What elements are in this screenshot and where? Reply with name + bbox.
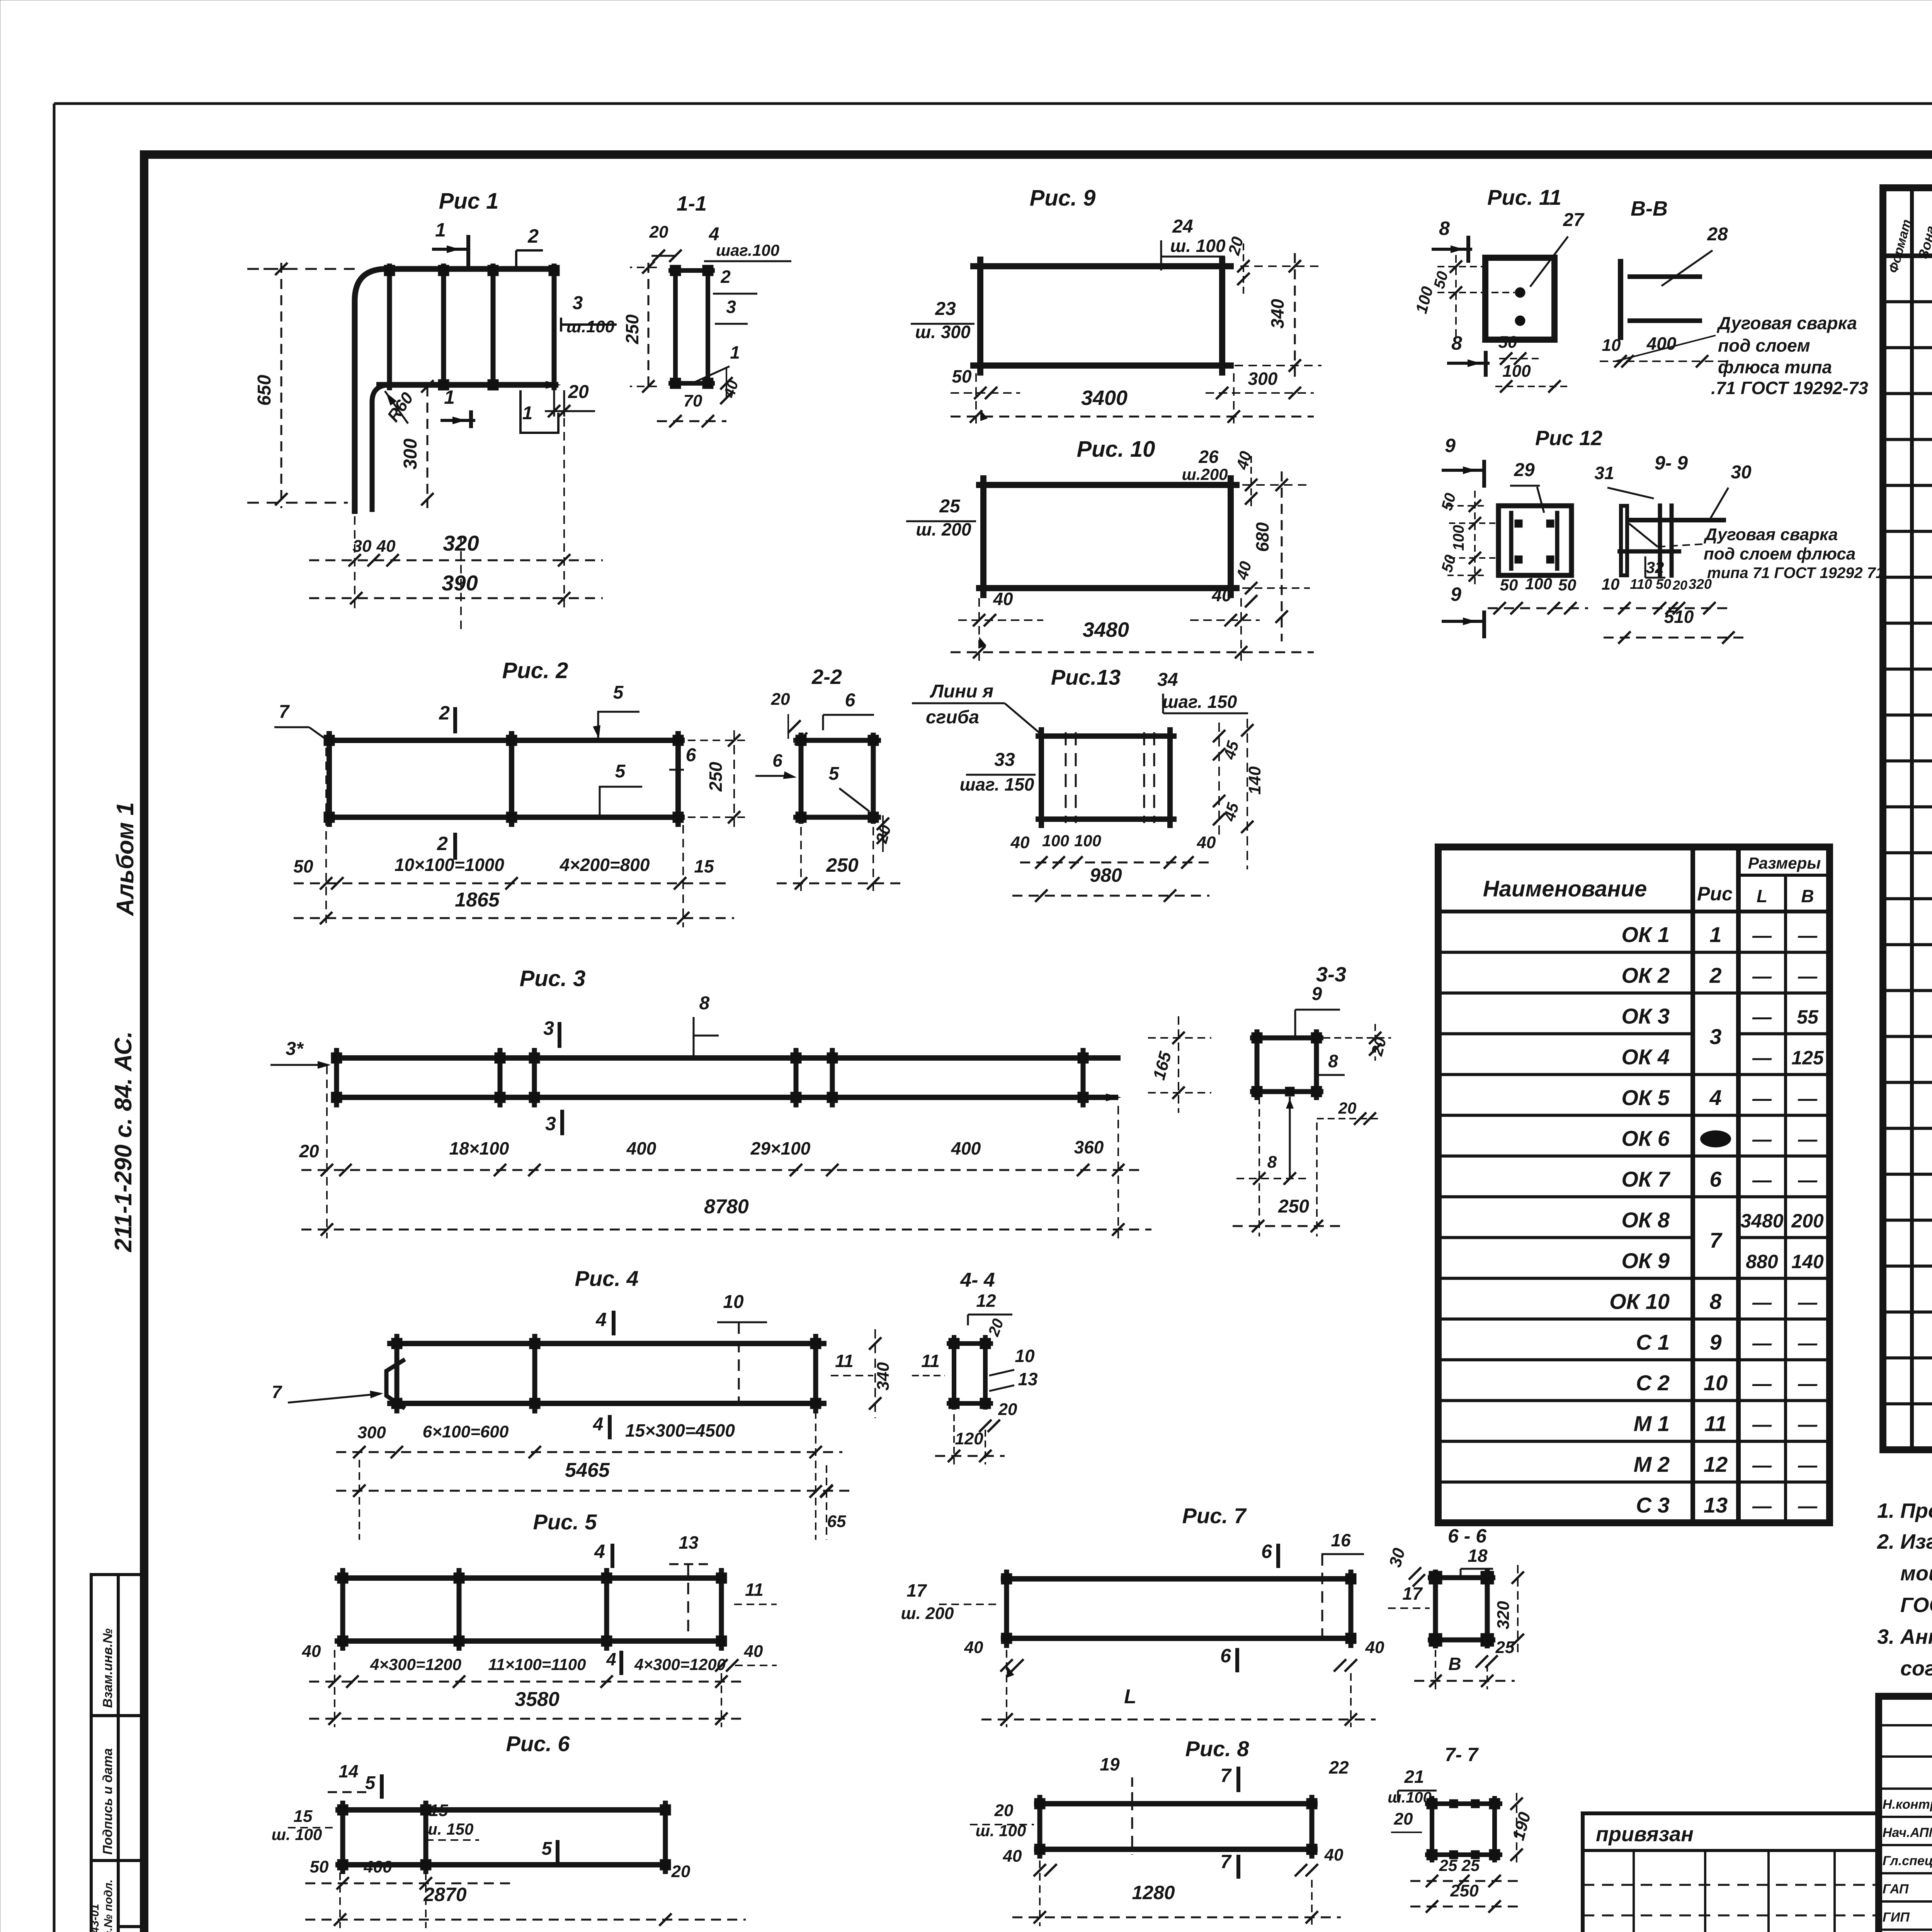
svg-text:шаг. 150: шаг. 150	[1163, 692, 1237, 712]
svg-text:—: —	[1752, 1332, 1772, 1354]
left margin stamp boxes	[91, 1575, 145, 1932]
svg-text:50: 50	[1500, 576, 1518, 594]
svg-text:L: L	[1124, 1685, 1136, 1708]
svg-text:18×100: 18×100	[449, 1138, 509, 1158]
svg-text:—: —	[1752, 966, 1772, 987]
svg-text:Рис 12: Рис 12	[1535, 427, 1602, 450]
svg-text:250: 250	[706, 762, 726, 792]
middle table header	[1738, 874, 1830, 877]
svg-text:3: 3	[545, 1113, 556, 1134]
svg-text:15: 15	[294, 1807, 313, 1826]
svg-text:15×300=4500: 15×300=4500	[625, 1420, 735, 1440]
svg-text:13: 13	[679, 1532, 699, 1553]
svg-text:3400: 3400	[1081, 386, 1128, 410]
svg-text:11: 11	[921, 1351, 940, 1371]
svg-text:125: 125	[1791, 1047, 1824, 1069]
svg-text:1: 1	[522, 403, 533, 423]
svg-text:211-1-290 с. 84. АС.: 211-1-290 с. 84. АС.	[110, 1031, 137, 1252]
svg-text:—: —	[1798, 1128, 1818, 1150]
svg-text:9: 9	[1312, 984, 1322, 1004]
spec table outer border	[1883, 188, 1932, 1450]
svg-text:Рис. 10: Рис. 10	[1077, 437, 1155, 462]
svg-text:1865: 1865	[455, 889, 500, 911]
svg-text:4×300=1200: 4×300=1200	[634, 1655, 726, 1673]
svg-text:М 2: М 2	[1634, 1452, 1670, 1476]
figure Ris.10 frame bars	[976, 482, 1240, 488]
svg-text:Инв.№ подл.: Инв.№ подл.	[102, 1879, 115, 1932]
middle table outer border	[1438, 847, 1830, 1523]
figure Ris.2 extension dashes	[325, 748, 327, 927]
svg-text:17: 17	[1402, 1583, 1423, 1604]
svg-text:25: 25	[1461, 1856, 1480, 1874]
svg-text:—: —	[1752, 1373, 1772, 1395]
figure Ris.1 extension dashed verticals	[354, 502, 355, 611]
svg-text:Рис. 8: Рис. 8	[1185, 1736, 1250, 1761]
svg-text:28: 28	[1707, 224, 1728, 245]
svg-text:250: 250	[826, 854, 859, 876]
spec table row lines	[1883, 300, 1932, 303]
svg-text:7: 7	[272, 1382, 282, 1402]
svg-text:40: 40	[993, 589, 1013, 609]
svg-text:4×200=800: 4×200=800	[560, 855, 650, 875]
figure Ris.5 stirrups	[340, 1568, 345, 1651]
svg-text:320: 320	[1494, 1601, 1513, 1629]
svg-text:300: 300	[1248, 369, 1278, 389]
svg-text:360: 360	[1074, 1137, 1104, 1157]
svg-text:С 1: С 1	[1636, 1330, 1670, 1354]
svg-text:флюса типа: флюса типа	[1718, 357, 1832, 377]
svg-text:20: 20	[1338, 1099, 1357, 1117]
svg-text:31: 31	[1594, 463, 1614, 483]
svg-text:100: 100	[1450, 525, 1467, 551]
svg-text:3: 3	[543, 1017, 554, 1039]
svg-text:1280: 1280	[1132, 1882, 1175, 1903]
svg-text:согласно пункту 3.20 СНиП I: согласно пункту 3.20 СНиП II-28-73*	[1900, 1657, 1932, 1680]
svg-text:40: 40	[964, 1638, 983, 1657]
outer border frame	[54, 102, 1932, 105]
svg-text:4: 4	[594, 1541, 605, 1562]
figure Ris.1 bent bar top	[355, 269, 556, 514]
svg-text:7: 7	[1220, 1765, 1232, 1786]
figure Ris.8 frame bars	[1034, 1801, 1318, 1806]
svg-text:—: —	[1752, 1128, 1772, 1150]
svg-text:32: 32	[1646, 558, 1664, 577]
figure Ris.4 stirrups	[395, 1334, 400, 1413]
svg-text:ОК 8: ОК 8	[1621, 1207, 1670, 1232]
svg-text:11×100=1100: 11×100=1100	[488, 1655, 586, 1673]
svg-text:300: 300	[400, 439, 421, 469]
section 7-7 frame	[1430, 1796, 1434, 1862]
svg-text:С 2: С 2	[1636, 1371, 1670, 1395]
svg-text:33: 33	[994, 750, 1015, 770]
svg-text:Альбом 1: Альбом 1	[112, 802, 139, 917]
svg-text:40: 40	[1324, 1845, 1344, 1864]
privyazan stamp grid	[1633, 1850, 1635, 1932]
svg-text:ш.100: ш.100	[566, 317, 615, 336]
figure Ris.2 end bar left	[327, 731, 332, 827]
svg-text:650: 650	[254, 375, 275, 406]
svg-text:4×300=1200: 4×300=1200	[370, 1655, 461, 1673]
svg-text:29: 29	[1514, 460, 1535, 480]
svg-text:340: 340	[1267, 299, 1287, 328]
figure Ris.1 bottom bar	[376, 382, 558, 388]
svg-text:15: 15	[694, 856, 714, 876]
svg-text:—: —	[1798, 925, 1818, 946]
svg-text:140: 140	[1791, 1251, 1824, 1272]
svg-text:50: 50	[1498, 333, 1517, 352]
svg-text:Нач.АПМ-2: Нач.АПМ-2	[1883, 1825, 1932, 1840]
svg-text:980: 980	[1090, 864, 1122, 886]
svg-text:6: 6	[1709, 1167, 1722, 1191]
svg-text:ш. 100: ш. 100	[1170, 236, 1226, 256]
svg-text:400: 400	[1646, 333, 1677, 354]
figure Ris.4 left hook	[386, 1359, 405, 1408]
svg-text:70: 70	[684, 391, 702, 410]
svg-text:140: 140	[1245, 766, 1264, 795]
svg-text:20: 20	[568, 382, 589, 402]
svg-text:25: 25	[1439, 1856, 1458, 1874]
svg-text:6: 6	[845, 690, 855, 711]
svg-text:200: 200	[1791, 1210, 1824, 1231]
svg-text:1: 1	[444, 386, 455, 408]
svg-text:6: 6	[772, 750, 782, 770]
figure Ris.1 bent bar bottom	[372, 385, 390, 512]
svg-text:50: 50	[310, 1857, 329, 1876]
section 3-3 bottom bar dot	[1285, 1087, 1294, 1096]
figure Ris.7 frame bars	[1001, 1576, 1356, 1582]
svg-text:6 - 6: 6 - 6	[1448, 1525, 1487, 1547]
spec table header row line	[1883, 253, 1932, 258]
svg-text:Гл.спец: Гл.спец	[1883, 1854, 1932, 1868]
title block horizontal lines signature area	[1879, 1724, 1932, 1726]
svg-text:2870: 2870	[423, 1884, 466, 1905]
svg-text:Рис. 5: Рис. 5	[533, 1510, 597, 1534]
svg-text:10×100=1000: 10×100=1000	[395, 855, 504, 875]
svg-text:В: В	[1801, 886, 1814, 906]
svg-text:6×100=600: 6×100=600	[423, 1422, 509, 1441]
svg-text:—: —	[1798, 1373, 1818, 1395]
svg-text:50: 50	[1558, 576, 1577, 594]
svg-text:250: 250	[1450, 1881, 1479, 1900]
svg-text:50: 50	[293, 856, 313, 876]
svg-text:под слоем флюса: под слоем флюса	[1704, 544, 1855, 563]
figure Ris.6 stirrups	[340, 1801, 345, 1874]
section B-B plate and bars	[1618, 259, 1623, 340]
svg-text:2-2: 2-2	[811, 665, 842, 689]
svg-text:8: 8	[1267, 1153, 1277, 1172]
svg-text:11: 11	[745, 1580, 764, 1600]
figure Ris.2 bottom bar	[324, 815, 685, 820]
svg-text:20: 20	[771, 690, 790, 709]
svg-text:5: 5	[829, 764, 840, 784]
svg-text:Рис: Рис	[1697, 883, 1733, 905]
svg-text:19: 19	[1100, 1754, 1120, 1774]
svg-text:В: В	[1448, 1654, 1461, 1674]
section 3-3 dim 8 line	[1236, 1178, 1310, 1179]
svg-text:40: 40	[1365, 1638, 1384, 1657]
svg-text:340: 340	[874, 1362, 893, 1391]
svg-text:2. Изготовление арматурных и: 2. Изготовление арматурных и закладных д…	[1877, 1530, 1932, 1553]
svg-text:5: 5	[365, 1773, 376, 1793]
figure Ris.2 middle bar	[509, 731, 514, 827]
svg-text:3480: 3480	[1740, 1210, 1783, 1231]
svg-text:10: 10	[1015, 1346, 1035, 1366]
svg-text:5465: 5465	[565, 1459, 610, 1481]
svg-text:50: 50	[1656, 576, 1671, 592]
svg-text:3: 3	[1709, 1024, 1721, 1049]
svg-text:мощи сварки с соблюдением т: мощи сварки с соблюдением требований ГОС…	[1900, 1562, 1932, 1585]
svg-text:—: —	[1752, 1006, 1772, 1028]
svg-text:ГАП: ГАП	[1883, 1882, 1909, 1896]
svg-text:250: 250	[622, 314, 642, 344]
svg-text:типа 71 ГОСТ 19292 71: типа 71 ГОСТ 19292 71	[1707, 565, 1884, 582]
svg-text:ш.200: ш.200	[1182, 465, 1228, 483]
svg-text:55: 55	[1797, 1006, 1819, 1028]
section 4-4 frame	[952, 1335, 956, 1410]
svg-text:1: 1	[1709, 922, 1721, 947]
svg-text:Лини я: Лини я	[930, 681, 993, 702]
svg-text:30: 30	[1731, 462, 1752, 483]
svg-text:4- 4: 4- 4	[960, 1269, 995, 1291]
svg-text:—: —	[1798, 1414, 1818, 1435]
figure Ris.9 frame bars	[970, 263, 1234, 269]
middle table column lines	[1690, 847, 1695, 1523]
svg-text:—: —	[1752, 1088, 1772, 1109]
svg-text:20: 20	[1394, 1810, 1413, 1828]
svg-text:16: 16	[1331, 1530, 1351, 1550]
svg-text:3580: 3580	[515, 1688, 560, 1711]
svg-text:5: 5	[542, 1838, 553, 1859]
svg-text:шаг. 150: шаг. 150	[960, 774, 1034, 794]
svg-text:—: —	[1798, 1332, 1818, 1354]
figure Ris.1 stirrup bars	[387, 264, 392, 390]
svg-text:ОК 4: ОК 4	[1621, 1045, 1670, 1069]
svg-text:9: 9	[1451, 583, 1461, 605]
svg-text:ш. 200: ш. 200	[901, 1604, 954, 1623]
svg-text:100: 100	[1525, 575, 1552, 593]
svg-text:2: 2	[1709, 963, 1721, 988]
svg-text:Рис. 7: Рис. 7	[1182, 1503, 1247, 1528]
svg-text:65: 65	[827, 1512, 846, 1531]
figure Ris.11 plate	[1485, 258, 1554, 340]
svg-text:—: —	[1798, 1454, 1818, 1476]
svg-text:7: 7	[1220, 1851, 1232, 1872]
figure Ris.8 dashed middle	[1131, 1799, 1133, 1855]
figure Ris.5 top bar	[335, 1575, 724, 1581]
svg-text:27: 27	[1563, 210, 1585, 230]
svg-text:20: 20	[671, 1862, 690, 1881]
svg-text:ГОСТ 19292-73.: ГОСТ 19292-73.	[1900, 1594, 1932, 1617]
svg-text:100: 100	[1074, 832, 1101, 850]
figure Ris.3 top bar	[333, 1055, 1121, 1061]
svg-text:100: 100	[1042, 832, 1069, 850]
svg-text:—: —	[1752, 1454, 1772, 1476]
svg-text:24: 24	[1172, 216, 1193, 237]
svg-text:20: 20	[998, 1400, 1017, 1419]
svg-text:привязан: привязан	[1596, 1823, 1694, 1846]
svg-text:ОК 1: ОК 1	[1621, 922, 1670, 947]
svg-text:25: 25	[1495, 1638, 1515, 1657]
svg-text:6: 6	[1220, 1645, 1231, 1667]
svg-text:2: 2	[527, 225, 539, 247]
figure Ris.13 frame	[1036, 733, 1177, 739]
svg-text:9: 9	[1445, 435, 1456, 456]
svg-text:С 3: С 3	[1636, 1493, 1670, 1517]
svg-text:120: 120	[955, 1429, 983, 1448]
svg-text:8: 8	[1328, 1051, 1338, 1071]
figure Ris.3 stirrups	[334, 1048, 339, 1107]
svg-text:ш. 150: ш. 150	[423, 1820, 474, 1838]
svg-text:ОК 9: ОК 9	[1621, 1248, 1670, 1273]
figure Ris.2 top bar	[324, 738, 685, 743]
figure Ris.12 plate	[1498, 506, 1571, 575]
svg-text:ш.100: ш.100	[1388, 1789, 1431, 1806]
figure Ris.1 top extension dashed line	[247, 268, 355, 270]
svg-text:12: 12	[1704, 1452, 1728, 1476]
svg-text:22: 22	[1328, 1757, 1349, 1777]
svg-text:1-1: 1-1	[677, 192, 707, 215]
svg-text:510: 510	[1664, 607, 1694, 627]
svg-text:11: 11	[835, 1351, 854, 1371]
svg-text:20: 20	[1672, 578, 1687, 593]
svg-text:—: —	[1752, 1414, 1772, 1435]
svg-text:—: —	[1752, 1047, 1772, 1069]
svg-text:6: 6	[686, 745, 696, 765]
svg-text:26: 26	[1198, 447, 1219, 467]
figure Ris.3 bottom bar	[333, 1095, 1118, 1100]
section 9-9 weld diagonal	[1629, 524, 1658, 547]
svg-text:В-В: В-В	[1631, 197, 1668, 220]
svg-text:2: 2	[720, 267, 731, 287]
svg-text:ОК 10: ОК 10	[1609, 1289, 1670, 1313]
svg-text:10: 10	[1704, 1371, 1728, 1395]
privyazan stamp box	[1583, 1813, 1879, 1932]
section 9-9 plate	[1621, 506, 1627, 575]
figure Ris.13 fold dashed lines	[1065, 732, 1067, 823]
svg-text:20: 20	[649, 223, 668, 241]
svg-text:400: 400	[363, 1857, 392, 1876]
svg-text:5: 5	[613, 682, 624, 703]
svg-text:Рис. 3: Рис. 3	[520, 966, 586, 991]
svg-text:ОК 7: ОК 7	[1621, 1167, 1671, 1191]
section 3-3 extension dashes	[1259, 1097, 1260, 1236]
svg-text:21: 21	[1404, 1767, 1424, 1787]
svg-text:40: 40	[1197, 833, 1216, 852]
svg-text:Рис. 11: Рис. 11	[1487, 185, 1561, 209]
svg-text:—: —	[1798, 1291, 1818, 1313]
svg-text:Рис. 2: Рис. 2	[502, 658, 568, 683]
svg-text:7: 7	[1709, 1228, 1723, 1252]
svg-text:3: 3	[726, 297, 736, 317]
svg-text:25: 25	[939, 496, 961, 517]
svg-text:50: 50	[952, 366, 972, 386]
figure Ris.2 end bar right	[675, 731, 681, 827]
svg-text:Дуговая сварка: Дуговая сварка	[1716, 313, 1857, 333]
svg-text:Рис. 6: Рис. 6	[506, 1731, 570, 1756]
svg-text:ОК 5: ОК 5	[1621, 1085, 1670, 1110]
svg-text:1. Продолжение спецификации: 1. Продолжение спецификации на арматурны…	[1877, 1499, 1932, 1522]
svg-text:ГИП: ГИП	[1883, 1910, 1910, 1925]
svg-text:8780: 8780	[704, 1196, 749, 1218]
figure Ris.1 bottom extension dashed line	[247, 502, 348, 504]
figure Ris.5 bottom bar	[335, 1638, 724, 1644]
svg-text:Дуговая сварка: Дуговая сварка	[1703, 525, 1838, 544]
svg-text:.71 ГОСТ 19292-73: .71 ГОСТ 19292-73	[1711, 378, 1868, 398]
svg-text:—: —	[1752, 1495, 1772, 1517]
svg-text:Рис 1: Рис 1	[439, 189, 499, 214]
svg-text:—: —	[1798, 1088, 1818, 1109]
svg-text:40: 40	[376, 537, 396, 556]
svg-text:13: 13	[1018, 1369, 1038, 1389]
svg-text:100: 100	[1502, 362, 1531, 381]
section 3-3 frame	[1255, 1029, 1260, 1100]
svg-text:9- 9: 9- 9	[1655, 452, 1688, 474]
section 2-2 frame	[799, 733, 804, 824]
section 6-6 frame	[1433, 1570, 1438, 1648]
svg-text:Ч.443-01: Ч.443-01	[88, 1904, 101, 1932]
svg-text:Н.контр: Н.контр	[1883, 1797, 1932, 1812]
svg-text:400: 400	[951, 1138, 981, 1158]
svg-text:5: 5	[615, 761, 626, 782]
svg-text:4: 4	[1709, 1085, 1721, 1110]
svg-text:—: —	[1752, 925, 1772, 946]
svg-text:20: 20	[994, 1801, 1014, 1820]
svg-text:7- 7: 7- 7	[1445, 1744, 1479, 1765]
svg-text:250: 250	[1278, 1196, 1309, 1217]
svg-text:1: 1	[730, 342, 740, 362]
svg-text:15: 15	[429, 1801, 448, 1820]
svg-text:ш. 200: ш. 200	[916, 519, 971, 539]
svg-text:8: 8	[1709, 1289, 1722, 1313]
svg-text:Взам.инв.№: Взам.инв.№	[100, 1628, 115, 1708]
svg-text:Подпись и дата: Подпись и дата	[100, 1748, 115, 1855]
svg-text:—: —	[1752, 1169, 1772, 1191]
svg-text:4: 4	[606, 1649, 616, 1669]
svg-text:4: 4	[595, 1309, 607, 1330]
svg-text:300: 300	[357, 1423, 386, 1442]
svg-text:—: —	[1752, 1291, 1772, 1313]
svg-text:13: 13	[1704, 1493, 1728, 1517]
svg-text:ОК 2: ОК 2	[1621, 963, 1670, 988]
svg-text:390: 390	[442, 571, 478, 595]
svg-text:40: 40	[1010, 833, 1030, 852]
svg-text:М 1: М 1	[1634, 1412, 1670, 1436]
svg-text:10: 10	[723, 1292, 744, 1312]
svg-text:3: 3	[573, 293, 583, 313]
svg-text:ОК 6: ОК 6	[1621, 1126, 1670, 1150]
svg-text:40: 40	[302, 1642, 321, 1661]
svg-text:под слоем: под слоем	[1718, 335, 1810, 355]
svg-text:Рис. 4: Рис. 4	[575, 1266, 639, 1291]
svg-text:ОК 3: ОК 3	[1621, 1004, 1670, 1028]
figure Ris.6 bottom bar	[335, 1862, 668, 1867]
svg-text:Рис. 9: Рис. 9	[1030, 185, 1096, 211]
svg-text:Рис.13: Рис.13	[1051, 665, 1121, 689]
figure Ris.4 top bar	[387, 1341, 827, 1346]
svg-text:11: 11	[1704, 1412, 1727, 1436]
svg-text:—: —	[1798, 1495, 1818, 1517]
svg-text:6: 6	[1261, 1541, 1272, 1562]
svg-text:2: 2	[437, 833, 448, 854]
svg-text:680: 680	[1252, 522, 1272, 552]
svg-text:12: 12	[976, 1291, 996, 1311]
svg-text:Наименование: Наименование	[1483, 876, 1647, 901]
title block outline	[1879, 1696, 1932, 1932]
svg-text:14: 14	[338, 1761, 358, 1781]
svg-text:L: L	[1757, 886, 1767, 906]
svg-text:9: 9	[1709, 1330, 1721, 1354]
svg-text:40: 40	[1003, 1847, 1022, 1866]
